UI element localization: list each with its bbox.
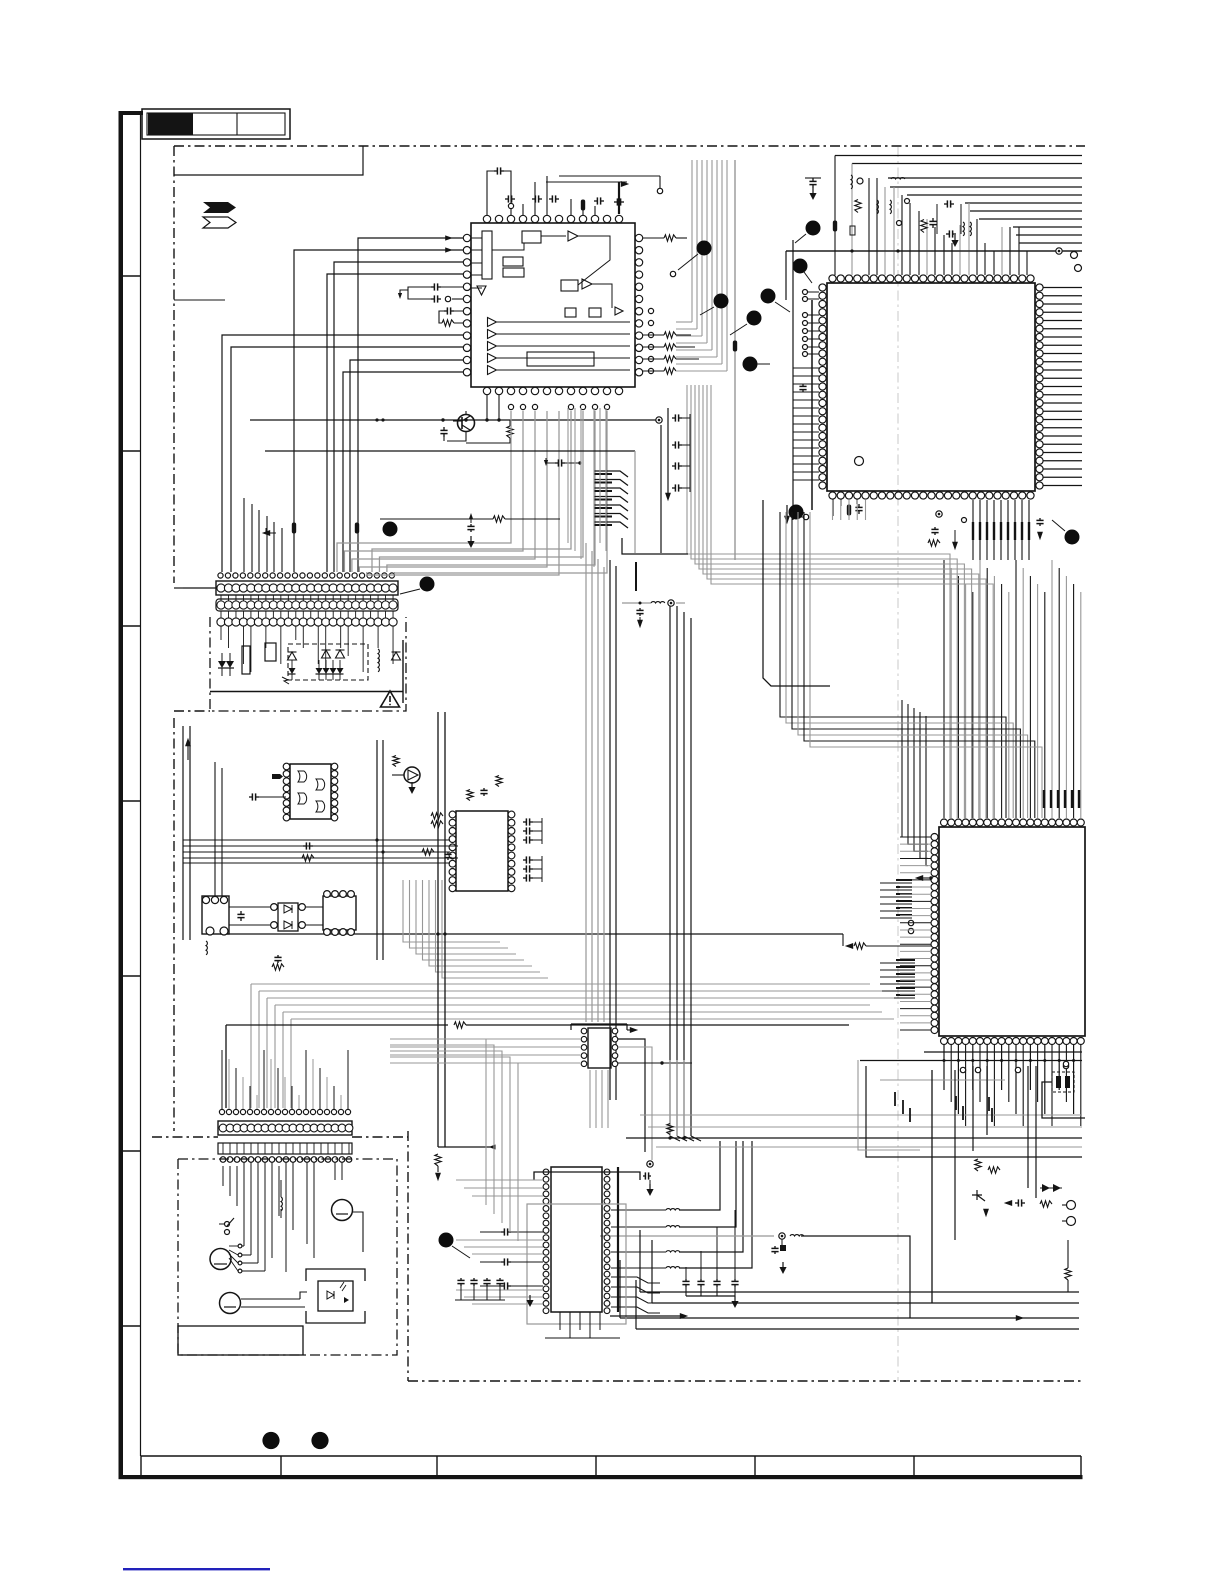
risers right of IC7: [679, 1141, 720, 1210]
mid band horizontal bus wires: [250, 984, 252, 1108]
CN1 resistor blocks: [242, 646, 250, 674]
connector CN2 lower circles: [220, 1157, 226, 1163]
circle buffer B1: [404, 767, 420, 783]
U1 top pins: [483, 215, 490, 222]
IC6 left pins: [581, 1028, 587, 1034]
wire p3: [334, 262, 463, 572]
callout dot G: [743, 357, 758, 372]
mechanism dash-dot box: [178, 1159, 397, 1355]
IC3 top pin verticals to IC2: [943, 560, 945, 818]
IC5 right pins: [331, 763, 338, 770]
dash-dot horizontal at CN2: [152, 1136, 218, 1138]
wire stair top black: [622, 538, 688, 554]
schematic dash-dot border top: [174, 145, 1085, 147]
callout dot A: [697, 241, 712, 256]
cap between T1 and D1: [240, 911, 242, 914]
CN1 inner solid frame: [210, 691, 403, 693]
wire bend bundle into IC3 top: [687, 385, 950, 818]
IC5 left pins: [283, 763, 290, 770]
center black pair verticals: [609, 560, 611, 1100]
motor M1: [210, 1249, 231, 1270]
CN1 left lead: [183, 587, 216, 589]
Q1 base capacitor: [443, 427, 445, 430]
arrow into CN1: [262, 530, 270, 536]
jog marks below IC3: [894, 1092, 896, 1106]
page border left thick: [119, 111, 124, 1479]
switch SW1: [225, 1222, 230, 1227]
jogs IC7 right-bottom: [611, 1277, 660, 1283]
CN2 wire stubs up: [221, 1050, 223, 1109]
output circles right edge: [1067, 1201, 1076, 1210]
vertical pair into T1: [214, 762, 216, 896]
resistor links U1 right to bus: [664, 235, 676, 241]
resistor to lower rail: [1065, 1268, 1071, 1280]
cap left of IC5: [249, 796, 252, 798]
driver IC4 body: [456, 811, 508, 891]
bus hatch bars below IC2: [972, 522, 974, 540]
wire p10 long: [231, 347, 463, 572]
callout dot E: [714, 294, 729, 309]
bus U1-bottom to CN1: [337, 411, 511, 572]
bead into IC5: [272, 774, 283, 779]
hatch jogs right of CN1: [594, 471, 628, 477]
components below IC2: [847, 505, 851, 516]
bend bundle left of rail: [670, 1136, 680, 1141]
callout dot I near IC2 bottom-right: [1065, 530, 1080, 545]
junction dots on rails: [375, 418, 378, 421]
IC2 left stub wires: [808, 291, 819, 293]
IC3 left stub bars upper: [880, 882, 912, 884]
IC3 bottom pins: [941, 1038, 948, 1045]
cap gnd below Q1: [470, 524, 472, 526]
wire p12: [343, 372, 463, 572]
resistor above IC5: [393, 756, 399, 767]
IC6 right wires: [618, 1039, 645, 1152]
horizontal rails below IC3: [924, 1051, 1082, 1053]
IC2 right pins: [1036, 284, 1043, 291]
connector CN1 mating row: [216, 599, 398, 611]
microcontroller IC2 body: [827, 283, 1035, 491]
right edge connector circles: [1071, 252, 1078, 259]
gray vertical bus center: [585, 543, 587, 1022]
flag marker filled: [203, 202, 236, 213]
IC4 left pins: [449, 811, 456, 818]
revision box: [142, 109, 290, 139]
U1 internal wires: [471, 237, 482, 239]
page border top stub: [119, 111, 143, 115]
box internal wires: [257, 1162, 259, 1230]
wire vertical below circled dot: [660, 425, 662, 553]
IC7 surrounding gray box: [527, 1204, 626, 1324]
IC6 bottom verticals: [589, 1070, 591, 1128]
IC3 left pin stubs: [900, 836, 931, 838]
long rails lower right: [640, 1291, 1079, 1293]
CN1 zener diodes: [288, 652, 297, 660]
callout dot B: [806, 221, 821, 236]
IC2 top pin vertical wires: [834, 156, 836, 276]
wire p2: [294, 250, 463, 523]
wires from dash-dot left to U1: [174, 299, 225, 301]
U1 left pins: [463, 234, 470, 241]
caps on mid-left bus: [303, 845, 306, 847]
IC3 top pins: [941, 819, 948, 826]
IC7 left pins: [543, 1169, 549, 1175]
CN1 row link ticks: [220, 595, 222, 601]
arrow top mid-left: [185, 738, 191, 746]
circled dot below IC6: [647, 1161, 653, 1167]
cap res near Q5: [1015, 1202, 1018, 1204]
IC2 bottom pins: [829, 492, 836, 499]
dash-dot border bottom right: [408, 1380, 1082, 1382]
IC2 left pins: [819, 284, 826, 291]
vertical pair center-left: [437, 712, 439, 1147]
U1 internal amplifiers: [568, 231, 578, 241]
inductor below T1: [206, 941, 207, 955]
page inner border thin vertical: [140, 113, 142, 1456]
bus U1-left to CN1 wire p1: [358, 238, 463, 523]
bus hatch bars above IC3: [1043, 790, 1045, 808]
IC5 gate symbols: [298, 771, 307, 782]
U1 below extra pin circles: [508, 404, 513, 409]
diode pair D5: [1042, 1184, 1050, 1192]
wire p4: [327, 274, 463, 572]
black vertical bus center: [669, 600, 671, 1136]
gray L bundle to mid bus: [403, 880, 500, 942]
capacitor cluster above U1: [494, 170, 497, 172]
deep verticals below IC3: [931, 1070, 933, 1303]
connector CN1 small pin circles: [218, 573, 223, 578]
wire p11: [350, 360, 463, 572]
CN1 coil: [378, 649, 379, 663]
inductor filter mid: [622, 602, 651, 604]
bend wires right of IC3 bottom: [866, 1066, 1082, 1157]
caps row below IC7-right wires: [685, 1279, 687, 1281]
IC7 left gray wires: [456, 1179, 543, 1181]
left edge verticals: [182, 726, 184, 940]
dash-dot vertical centerline: [897, 147, 899, 1381]
caps row below IC7 left: [460, 1278, 462, 1280]
IC6 right pins: [612, 1028, 618, 1034]
Q1 emitter resistor: [507, 426, 513, 438]
components above IC2: [812, 178, 814, 181]
connector CN2 hatch band: [218, 1143, 352, 1154]
transformer T1 body: [202, 896, 229, 934]
CN1 diodes pair: [218, 661, 226, 668]
solid rect in box: [178, 1326, 303, 1355]
IC3 left-top entry verticals: [902, 700, 928, 837]
callout dot H: [789, 505, 804, 520]
warning triangle: [381, 691, 400, 707]
callout dot C: [793, 259, 808, 274]
IC7 top bracket: [534, 1172, 640, 1180]
IC3 left arrow: [915, 875, 923, 881]
sensor circle: [332, 1200, 353, 1221]
CN1 spark gap symbol: [282, 677, 289, 684]
photocoupler D1 box: [278, 903, 298, 931]
verticals into CN1 small pins: [243, 498, 245, 572]
IC2 top bus horizontal wires: [835, 155, 1082, 157]
U1 right pins: [635, 234, 642, 241]
logic gate IC5 body: [290, 764, 331, 819]
IC4 right pins: [508, 811, 515, 818]
CN1 diode row: [289, 668, 296, 674]
horizontal bus mid-left: [183, 839, 450, 841]
thick vertical inside IC7 right: [617, 1167, 619, 1312]
op-amp IC U1 body: [471, 223, 635, 387]
IC2 top pins: [829, 275, 836, 282]
gray verticals from U1 region down: [567, 408, 569, 543]
IC2 pin1 index circle: [855, 457, 864, 466]
middle-left link wires: [229, 906, 270, 908]
gray bends into IC6: [390, 1038, 580, 1040]
ferrite beads above CN1: [292, 523, 296, 534]
connector CN2 small circles: [219, 1109, 224, 1114]
wire long horizontal into IC3 left: [220, 933, 843, 935]
IC7 bottom wires: [559, 1312, 561, 1330]
wire p9 long: [222, 335, 463, 572]
gray verticals right-center: [669, 1060, 671, 1136]
T1 bottom pins: [206, 927, 214, 935]
wire Q1 collector rail: [250, 419, 659, 421]
inner dashed box CN1: [288, 644, 368, 680]
IC3 left small circles: [908, 920, 913, 925]
motor M2: [220, 1293, 241, 1314]
connector CN1 lower row: [217, 618, 225, 626]
callout dots bottom margin: [262, 1432, 279, 1449]
IC3 left pins: [931, 834, 938, 841]
IC2 left small pin circles: [803, 290, 808, 295]
ASIC IC3 body: [939, 827, 1085, 1036]
IC3 bottom pin verticals: [943, 1045, 945, 1090]
arrow line below IC7: [610, 1315, 680, 1317]
capacitor bank right of U1: [667, 408, 669, 493]
left border fold tick marks: [121, 275, 140, 277]
mid band black wire: [226, 1024, 448, 1026]
motor M1 fan leads: [229, 1245, 238, 1247]
callout dot F: [747, 311, 762, 326]
coils on IC7 right wires: [666, 1209, 680, 1210]
solid step line top-left: [174, 146, 363, 175]
IC7 right pins: [604, 1169, 610, 1175]
gray wire with bead: [734, 160, 736, 560]
schematic dash-dot border left lower: [173, 718, 175, 1131]
connector CN2 main row: [218, 1121, 352, 1135]
cap res loop left of U1 pins 7-8: [444, 310, 447, 312]
stub bar mid: [635, 562, 637, 591]
motor M2 leads: [241, 1298, 300, 1300]
wire long horizontal above IC2: [786, 250, 1056, 252]
gray drop bundle right of U1: [691, 160, 693, 322]
inductor in box: [281, 1197, 282, 1211]
callout dot CN1-A: [383, 522, 398, 537]
schematic dash-dot border left upper: [173, 146, 175, 583]
bottom blue link underline: [123, 1568, 270, 1570]
comparator IC6 body: [588, 1028, 611, 1068]
callout dot CN1-B: [420, 577, 435, 592]
transistor Q5 area: [975, 1159, 981, 1171]
callout dot D: [761, 289, 776, 304]
opto coupler box: [306, 1269, 365, 1281]
small circles below IC3: [960, 1067, 965, 1072]
cap loop left of U1 pins 5-6: [431, 286, 434, 288]
bundle IC2-bottom-left to IC3-top: [780, 512, 1006, 818]
cap near CN1 right: [555, 462, 558, 464]
flag marker outline: [203, 217, 236, 228]
transistor Q1: [458, 415, 475, 432]
dash-dot vertical mid-right of CN2 box: [407, 1131, 409, 1381]
motor driver IC7 body: [551, 1167, 602, 1312]
bottom title table: [141, 1455, 1081, 1457]
isolation dash-dot box CN1: [210, 617, 406, 711]
IC4 right capacitors: [523, 821, 526, 823]
connector CN1 main row: [216, 581, 398, 595]
IC3 left stub bars lower: [880, 962, 915, 964]
T1 top pins: [202, 896, 209, 903]
IC2 bottom pin verticals: [832, 500, 834, 520]
IC6 top bracket: [571, 1023, 627, 1025]
wires left edge to CN1: [174, 587, 183, 589]
IC2 left vertical bus: [792, 240, 794, 520]
U1 bottom pins: [483, 387, 490, 394]
sensor circle lead: [353, 1212, 363, 1252]
IC2 right side bus wires: [1043, 287, 1082, 289]
U1 right inner pin circles: [648, 308, 653, 313]
vertical pair mid-left: [376, 740, 378, 960]
IC4 input resistors: [431, 813, 443, 819]
gray L bends lower mid: [390, 1039, 486, 1205]
regulator IC6b body: [323, 896, 356, 930]
U1 internal blocks: [482, 231, 492, 279]
wires CN2 down to box: [222, 1166, 224, 1186]
IC7 left caps: [501, 1231, 504, 1233]
resonator X2: [1052, 1072, 1074, 1092]
ground below circled dot IC6: [646, 1189, 653, 1196]
CN1 internal verticals: [220, 626, 222, 640]
wire long horizontal y451: [265, 450, 635, 452]
wire black corner right: [763, 500, 830, 686]
circled dot and coil line right of IC7: [600, 1235, 774, 1237]
callout dot IC7: [439, 1233, 454, 1248]
